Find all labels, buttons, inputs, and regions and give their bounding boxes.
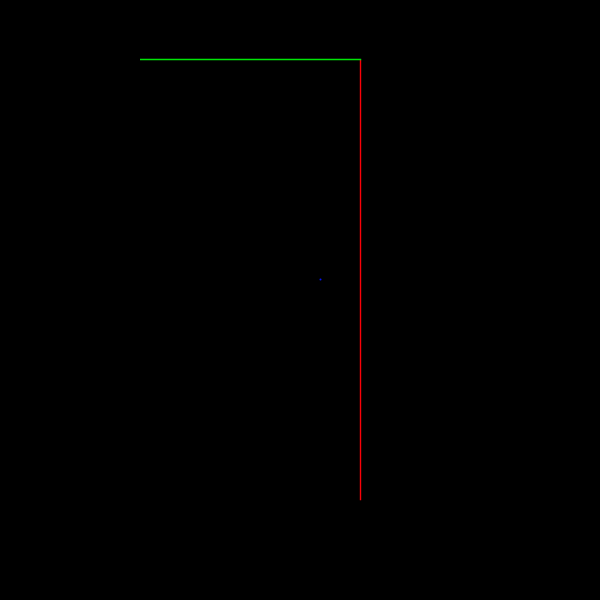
wire: red vertical line segment bbox=[360, 60, 362, 501]
node: blue dot bbox=[320, 279, 322, 281]
wire: green horizontal line segment bbox=[140, 59, 361, 61]
